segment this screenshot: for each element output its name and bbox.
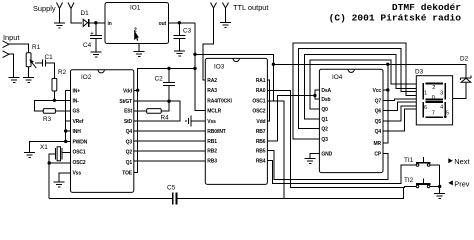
sideways ground (IO3 Vss) [186, 115, 205, 126]
svg-text:RA1: RA1 [256, 78, 266, 84]
svg-text:Vcc: Vcc [373, 88, 382, 94]
svg-text:TI1: TI1 [404, 157, 414, 164]
svg-text:Q0: Q0 [321, 107, 328, 113]
svg-text:MCLR: MCLR [207, 109, 221, 115]
capacitor C1 [35, 60, 55, 79]
wire Q4 to display [383, 109, 416, 131]
wire Q3 loop over top (outermost) [293, 43, 416, 139]
wire bottom rail left segment [49, 197, 172, 199]
svg-text:StD: StD [124, 119, 133, 125]
ground (C4) [90, 52, 101, 57]
svg-text:D1: D1 [81, 10, 90, 17]
svg-text:D3: D3 [415, 69, 424, 76]
wire Q4 to RB0 [134, 130, 206, 132]
node +5V rail lower [193, 67, 196, 70]
svg-text:2: 2 [432, 85, 435, 91]
wire R3 loop [34, 100, 54, 111]
svg-text:RA3: RA3 [207, 88, 217, 94]
svg-text:4: 4 [440, 105, 443, 111]
svg-text:Q1: Q1 [321, 117, 328, 123]
wire IO2 Vdd stub [134, 89, 138, 91]
svg-text:Q4: Q4 [126, 129, 133, 135]
svg-text:C5: C5 [167, 185, 176, 192]
svg-text:RB7: RB7 [256, 129, 266, 135]
wire bottom rail right segment [177, 188, 404, 199]
svg-text:IO1: IO1 [130, 5, 141, 12]
wire RB4 to TI1 [267, 160, 414, 183]
wire jack1 to R1 [9, 44, 29, 53]
svg-text:(C) 2001 Pirátské radio: (C) 2001 Pirátské radio [329, 13, 462, 24]
switch TI2 [414, 178, 440, 187]
mouse cursor [134, 30, 139, 41]
svg-text:5: 5 [446, 110, 449, 116]
wire IN+ / VRef / INH / PWDN bus [66, 90, 71, 141]
svg-text:Q1: Q1 [126, 160, 133, 166]
svg-text:Q4: Q4 [375, 129, 382, 135]
node R2/R3/IN- [53, 99, 56, 102]
wire TI1 to TI2 common [439, 165, 441, 186]
svg-text:RB5: RB5 [256, 149, 266, 155]
wire Vcc riser and MR [383, 64, 388, 143]
svg-text:Input: Input [3, 33, 19, 42]
svg-text:IO4: IO4 [332, 74, 343, 81]
svg-text:R2: R2 [58, 69, 67, 76]
wire Q2 loop over top [299, 49, 417, 129]
wire +5V rail to left (IO2 Vdd, TOE) [134, 68, 195, 172]
svg-text:R4: R4 [161, 115, 170, 122]
svg-text:X1: X1 [40, 144, 48, 151]
wire supply terminal 2 to D1 [71, 9, 82, 23]
svg-text:RB0/INT: RB0/INT [207, 129, 225, 135]
TTL terminal 1 [211, 3, 217, 9]
title text [329, 2, 462, 24]
svg-text:OSC2: OSC2 [252, 109, 265, 115]
ground (IO2 Vss) [54, 182, 65, 187]
wire PWDN to ground [30, 141, 66, 152]
svg-text:D2: D2 [460, 56, 469, 63]
svg-text:GS: GS [73, 109, 81, 115]
wire TTL terminal 1 to RA2 [203, 8, 214, 80]
capacitor C2 [163, 68, 175, 101]
svg-text:out: out [159, 21, 167, 27]
wire junction down to bottom rail [48, 163, 50, 198]
label Next [448, 157, 469, 166]
svg-text:St/GT: St/GT [119, 99, 132, 105]
svg-text:INH: INH [73, 129, 82, 135]
node TI common [438, 185, 441, 188]
svg-text:IO2: IO2 [81, 74, 92, 81]
svg-text:C2: C2 [155, 76, 164, 83]
node OSC2 junction [48, 161, 51, 164]
wire jack2 to ground [9, 54, 14, 77]
wire Q0 loop over top (innermost) [310, 60, 416, 109]
svg-text:RB4: RB4 [256, 158, 266, 164]
svg-text:ESt: ESt [124, 109, 132, 115]
svg-text:1: 1 [424, 90, 427, 96]
wire RB6 to DsA/DsB [267, 96, 315, 142]
svg-text:Q3: Q3 [126, 139, 133, 145]
svg-text:3: 3 [440, 90, 443, 96]
svg-text:Next: Next [454, 157, 469, 166]
svg-text:R3: R3 [43, 116, 52, 123]
display D3 [416, 76, 452, 125]
ground (PWDN) [24, 153, 35, 158]
node C2 top [167, 67, 170, 70]
resistor R3 [43, 109, 70, 114]
IC IO4 [319, 69, 383, 172]
svg-text:IN-: IN- [73, 98, 80, 104]
wire RB5 to CP [267, 151, 388, 180]
ground (TI) [434, 194, 445, 199]
svg-text:DTMF dekodér: DTMF dekodér [392, 2, 461, 13]
node IO4 Vcc [386, 88, 389, 91]
regulator IO1 [105, 3, 169, 44]
ground (C3) [174, 51, 185, 56]
resistor R2 [52, 78, 57, 100]
svg-text:DsA: DsA [321, 88, 331, 94]
diode D2 [461, 76, 471, 83]
wire IO4 GND to ground [310, 154, 319, 158]
svg-text:RA4/T0CKI: RA4/T0CKI [207, 99, 232, 105]
switch TI1 [414, 157, 440, 166]
svg-text:Q2: Q2 [321, 127, 328, 133]
wire Q6 to display [383, 102, 416, 110]
wire Q2 to RB2 [134, 150, 206, 152]
node junction D1/C4 [94, 21, 97, 24]
node IO2 Vdd [136, 89, 139, 92]
svg-text:C4: C4 [83, 42, 92, 49]
svg-text:VRef: VRef [73, 119, 84, 125]
svg-text:PWDN: PWDN [73, 139, 88, 145]
wire St/GT line [134, 101, 180, 121]
svg-text:Vdd: Vdd [123, 88, 132, 94]
svg-text:Prev: Prev [454, 179, 470, 188]
svg-text:Q6: Q6 [375, 108, 382, 114]
svg-text:RA2: RA2 [207, 78, 217, 84]
input jack 1 [3, 41, 10, 48]
wire junction to IN- [54, 99, 70, 101]
svg-text:Q7: Q7 [375, 98, 382, 104]
wire fork to DsA [315, 90, 320, 96]
svg-text:Q2: Q2 [126, 150, 133, 156]
wire IO4 Vcc stub [383, 89, 388, 91]
wire Q7 to display [383, 99, 416, 101]
svg-text:OSC1: OSC1 [252, 99, 265, 105]
wire Q1 to RB3 [134, 160, 206, 162]
wire RA0 to TI2 [267, 90, 414, 187]
wire +5V riser down [195, 23, 205, 111]
capacitor C4 [90, 23, 102, 52]
svg-text:Q3: Q3 [321, 137, 328, 143]
svg-text:Supply: Supply [33, 4, 56, 13]
wire +5V branch down to OSC1 line [272, 64, 274, 101]
wire OSC1 to clock rail [267, 101, 284, 199]
svg-text:RB6: RB6 [256, 139, 266, 145]
wire RA1 to Vdd link [267, 80, 269, 121]
wire Q1 loop over top [304, 54, 416, 119]
wire IO1 ground pin [138, 44, 140, 52]
wire Q5 to display [383, 106, 416, 121]
ground (jack2) [9, 78, 20, 83]
crystal X1 [49, 147, 70, 163]
svg-text:+: + [91, 31, 94, 37]
svg-text:OSC1: OSC1 [73, 150, 86, 156]
svg-text:IN+: IN+ [73, 88, 81, 94]
svg-text:in: in [108, 21, 112, 27]
svg-text:RB3: RB3 [207, 158, 217, 164]
IC IO3 [205, 58, 267, 184]
svg-text:Q5: Q5 [375, 119, 382, 125]
svg-text:Vdd: Vdd [256, 119, 265, 125]
svg-text:GND: GND [321, 152, 332, 158]
wire +5V rail to right [195, 54, 274, 64]
label Prev [448, 179, 470, 188]
diode D1 [83, 19, 105, 27]
node PWDN [64, 140, 67, 143]
svg-text:TTL output: TTL output [233, 3, 268, 12]
ground (R1) [23, 78, 34, 83]
svg-text:RB1: RB1 [207, 139, 217, 145]
TTL terminal 2 [223, 3, 229, 23]
wire display common to D2 [452, 82, 466, 98]
node INH [64, 129, 67, 132]
svg-text:CP: CP [374, 152, 381, 158]
node Vcc top [386, 63, 389, 66]
ground (IO1) [134, 52, 145, 57]
node +5V rail upper [193, 53, 196, 56]
ground (IO4) [305, 158, 316, 163]
node +5V fork right [272, 63, 275, 66]
svg-text:MR: MR [374, 141, 382, 147]
svg-text:6: 6 [424, 105, 427, 111]
svg-text:IO3: IO3 [214, 64, 225, 71]
wire Q3 to RB1 [134, 140, 206, 142]
resistor R4 [134, 101, 169, 113]
IC IO2 [71, 70, 134, 193]
ground (TTL terminal 2) [220, 23, 231, 28]
ground (supply terminal 1) [54, 23, 65, 28]
node junction C3 [178, 21, 181, 24]
svg-text:R1: R1 [32, 44, 41, 51]
svg-text:RB2: RB2 [207, 149, 217, 155]
svg-text:C3: C3 [183, 28, 192, 35]
svg-text:RA0: RA0 [256, 88, 266, 94]
capacitor C3 [174, 23, 186, 51]
svg-text:0: 0 [432, 95, 435, 101]
svg-text:TI2: TI2 [404, 177, 414, 184]
capacitor C5 [173, 192, 177, 204]
wire OSC2 to junction [49, 162, 70, 164]
svg-text:Vss: Vss [73, 171, 82, 177]
node DsA/DsB fork [313, 94, 316, 97]
potentiometer R1 [26, 53, 36, 77]
supply terminal 1 [57, 3, 63, 23]
supply terminal 2 [68, 3, 74, 9]
node St/GT / C2 / R4 [167, 100, 170, 103]
svg-text:7: 7 [432, 110, 435, 116]
svg-text:OSC2: OSC2 [73, 160, 86, 166]
wire +5V line to D2 [273, 64, 466, 77]
wire to TI ground [439, 186, 441, 193]
svg-text:Dsb: Dsb [321, 97, 330, 103]
wire IO1 out to +5V riser [169, 22, 196, 24]
svg-text:Vss: Vss [207, 119, 216, 125]
svg-text:TOE: TOE [122, 171, 133, 177]
input jack 2 [3, 51, 10, 58]
wire fork to DsB [315, 96, 320, 100]
wire IO2 Vss to ground [59, 173, 71, 182]
